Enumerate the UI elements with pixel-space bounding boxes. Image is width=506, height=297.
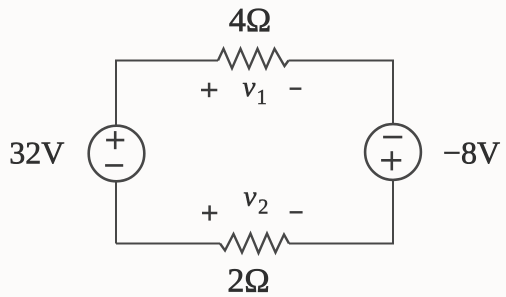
label 4ohm: [229, 2, 271, 39]
wire top-right segment: [289, 60, 394, 62]
svg-text:2: 2: [258, 195, 269, 219]
wire right upper segment: [392, 60, 394, 125]
wire bottom-right segment: [289, 243, 394, 245]
svg-text:−8V: −8V: [443, 135, 500, 171]
polarity minus of v1: [290, 87, 302, 89]
polarity plus of v1: [201, 83, 217, 98]
svg-text:32V: 32V: [9, 135, 64, 171]
plus sign inside 32V source: [106, 131, 124, 149]
minus sign inside 32V source: [105, 164, 123, 167]
wire left lower segment: [115, 181, 117, 243]
polarity minus of v2: [290, 211, 303, 213]
wire left upper segment: [115, 60, 117, 126]
svg-text:v: v: [243, 71, 256, 103]
label -8V: [443, 135, 500, 171]
resistor 2ohm zigzag: [220, 234, 289, 254]
svg-text:v: v: [244, 181, 257, 213]
svg-text:2Ω: 2Ω: [227, 263, 269, 297]
voltage source 32V circle: [89, 126, 145, 182]
wire bottom-left segment: [116, 243, 220, 245]
plus sign inside -8V source: [381, 151, 401, 170]
label v1: [243, 71, 268, 109]
wire top-left segment: [116, 60, 218, 62]
svg-text:1: 1: [257, 85, 268, 109]
voltage source -8V circle: [365, 124, 421, 180]
polarity plus of v2: [202, 205, 217, 220]
minus sign inside -8V source: [383, 136, 402, 139]
svg-text:4Ω: 4Ω: [229, 2, 271, 39]
resistor 4ohm zigzag: [218, 49, 289, 69]
wire right lower segment: [392, 180, 394, 245]
label 2ohm: [227, 263, 269, 297]
label v2: [244, 181, 269, 219]
label 32V: [9, 135, 64, 171]
